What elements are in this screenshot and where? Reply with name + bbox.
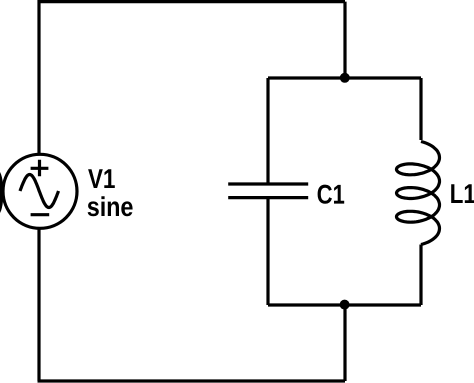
wire left vertical (bottom segment) (37, 228, 40, 381)
voltage source V1 circle (3, 154, 77, 228)
capacitor C1 bottom lead (266, 199, 269, 305)
capacitor C1 top lead (266, 78, 269, 183)
voltage source V1 plus sign (31, 160, 49, 176)
capacitor C1 bottom plate (228, 196, 308, 199)
voltage source V1 minus sign (31, 213, 50, 216)
label sine (88, 196, 133, 216)
wire bottom horizontal (38, 379, 346, 382)
label L1 (451, 184, 474, 203)
wire bottom rail of parallel section (268, 303, 421, 306)
wire left vertical (top segment) (37, 0, 40, 155)
wire top rail of parallel section (268, 76, 421, 79)
node A junction dot (340, 73, 350, 83)
inductor L1 coil (397, 142, 440, 245)
capacitor C1 top plate (228, 182, 308, 185)
wire top horizontal (38, 0, 346, 3)
label V1 (88, 169, 115, 188)
inductor L1 bottom lead (419, 245, 422, 306)
clipped symbol at left edge (0, 171, 3, 214)
wire mid vertical bottom (node B to bottom wire) (343, 305, 346, 381)
voltage source V1 sine wave (20, 175, 59, 208)
node B junction dot (340, 300, 350, 310)
wire mid vertical top (source to node A) (343, 2, 346, 78)
inductor L1 top lead (419, 78, 422, 140)
label C1 (318, 185, 345, 204)
